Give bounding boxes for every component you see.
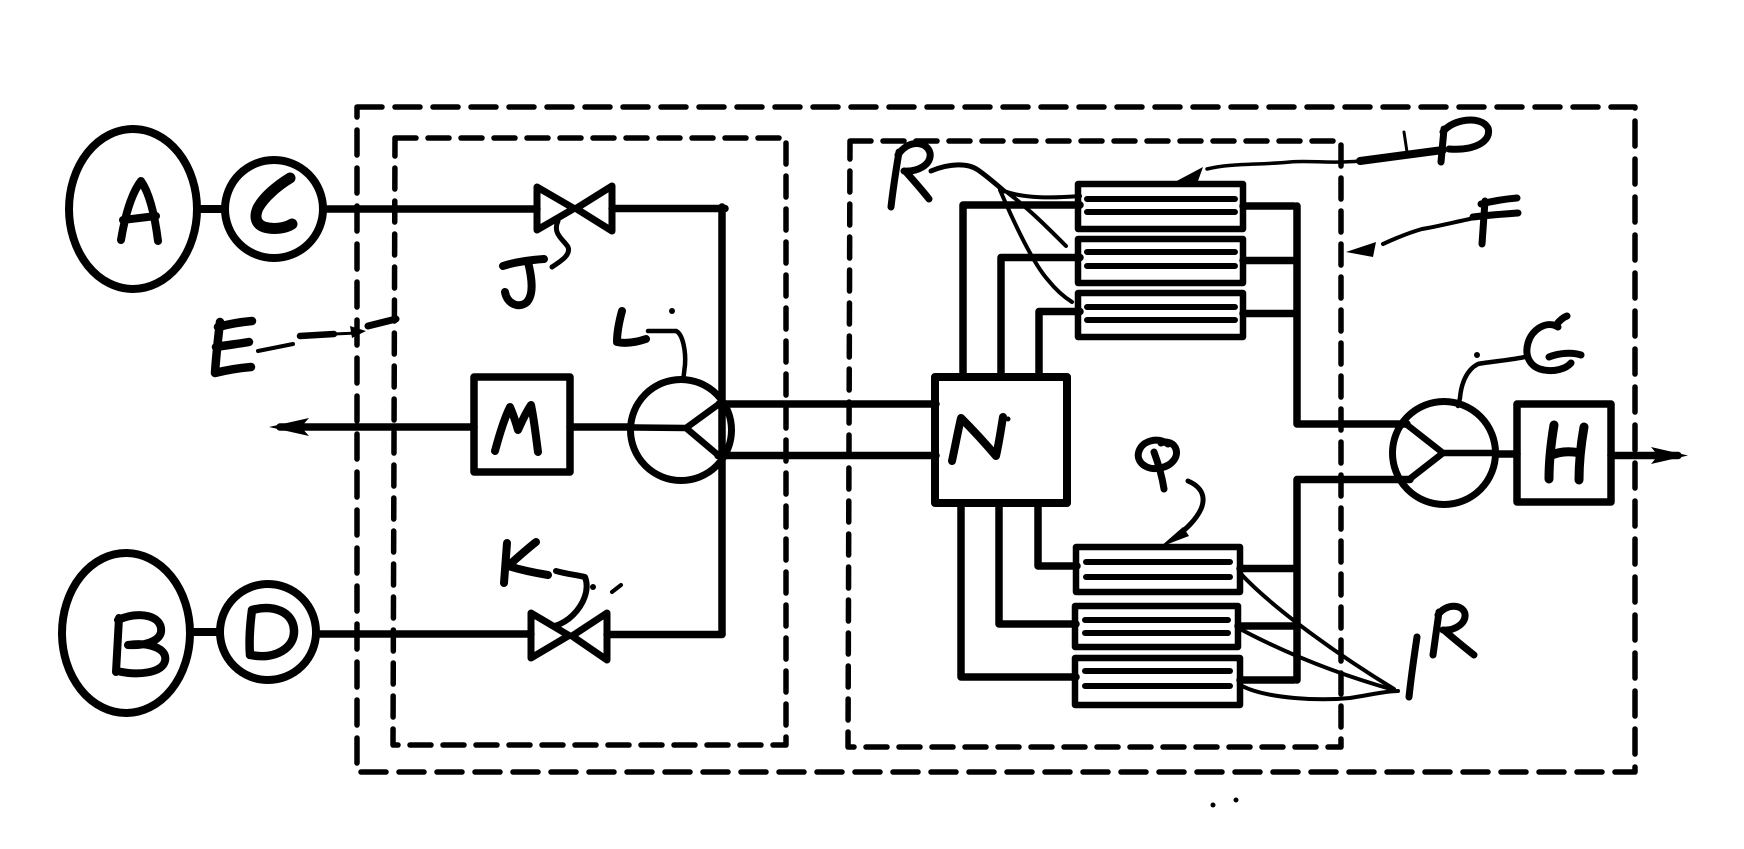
label B bbox=[116, 615, 165, 673]
label Q bbox=[1138, 440, 1176, 489]
label C bbox=[256, 178, 292, 228]
pump G vanes bbox=[1406, 424, 1497, 480]
leader L bbox=[648, 331, 685, 379]
stub Q3 right bbox=[1240, 676, 1294, 684]
label G bbox=[1527, 316, 1581, 371]
valve K bbox=[531, 613, 607, 660]
wire pump G to box H bbox=[1497, 450, 1517, 458]
label H bbox=[1549, 425, 1584, 480]
leader F bbox=[1383, 217, 1479, 244]
wire valve K to corner bbox=[607, 631, 722, 639]
valve J bbox=[537, 186, 612, 231]
pipe N-bot-3 bbox=[1038, 503, 1077, 566]
source A ellipse bbox=[69, 129, 197, 289]
leader R bottom curve 1 bbox=[1241, 574, 1394, 689]
outlet arrow right bbox=[1611, 452, 1678, 460]
meter D circle bbox=[220, 584, 316, 680]
stray dots bottom right bbox=[1211, 798, 1239, 808]
leader E arrowhead bbox=[350, 326, 366, 338]
pump L vanes bbox=[632, 404, 719, 455]
dashed box F bbox=[848, 141, 1341, 747]
heat exchanger P3 bbox=[1078, 293, 1243, 337]
pipe N-top-1 bbox=[963, 205, 1080, 377]
pump G circle bbox=[1393, 402, 1496, 505]
label L bbox=[617, 311, 646, 343]
wire valve J to corner bbox=[612, 205, 725, 213]
label R top bbox=[891, 144, 930, 208]
box N bbox=[935, 377, 1067, 503]
pipe N-bot-1 bbox=[961, 503, 1076, 677]
label K bbox=[504, 542, 548, 583]
pipe N-top-2 bbox=[1001, 258, 1080, 378]
wire C to valve J bbox=[323, 205, 537, 213]
leader R bottom curve 2 bbox=[1242, 630, 1394, 690]
leader Q bbox=[1176, 481, 1203, 537]
stub P1 right bbox=[1243, 202, 1294, 210]
stub Q2 right bbox=[1238, 622, 1294, 630]
leader G bbox=[1458, 357, 1525, 406]
dashed enclosure outer box bbox=[357, 107, 1635, 772]
heat exchanger Q1 bbox=[1076, 547, 1240, 592]
leader R top bbox=[931, 165, 1080, 302]
label M bbox=[495, 405, 538, 452]
stray dots near K bbox=[590, 584, 596, 590]
leader K bbox=[555, 571, 587, 626]
wire B to D bbox=[190, 628, 220, 636]
wire D to valve K bbox=[316, 630, 531, 638]
bus top right bbox=[1297, 206, 1407, 424]
wire L lower to N bbox=[718, 452, 936, 460]
label A bbox=[121, 181, 158, 241]
stub Q1 right bbox=[1240, 565, 1294, 573]
label J bbox=[503, 259, 544, 305]
leader J bbox=[552, 221, 569, 267]
pipe N-bot-2 bbox=[999, 503, 1076, 624]
label P bbox=[1441, 120, 1489, 162]
label N bbox=[952, 417, 1003, 461]
wire M to pump L bbox=[570, 423, 632, 431]
label R bottom bbox=[1433, 606, 1474, 655]
stub P2 right bbox=[1243, 257, 1294, 265]
pump L circle bbox=[631, 380, 732, 481]
heat exchanger Q3 bbox=[1075, 658, 1240, 705]
slash before R bottom bbox=[1409, 637, 1417, 697]
leader P bbox=[1207, 132, 1443, 169]
label F bbox=[1473, 198, 1518, 244]
stray dash near K bbox=[612, 585, 621, 592]
wire L upper to N bbox=[719, 400, 936, 408]
stub P3 right bbox=[1243, 310, 1294, 318]
box H bbox=[1517, 404, 1611, 502]
heat exchanger Q2 bbox=[1075, 606, 1238, 647]
leader E dash-dot bbox=[258, 319, 396, 351]
bus bottom right bbox=[1297, 480, 1410, 681]
wire vertical J-K riser bbox=[718, 207, 726, 634]
heat exchanger P2 bbox=[1078, 239, 1243, 283]
label E bbox=[215, 321, 252, 373]
pipe N-top-3 bbox=[1039, 312, 1080, 378]
box M bbox=[474, 377, 570, 472]
meter C circle bbox=[225, 160, 323, 258]
heat exchanger P1 bbox=[1078, 184, 1243, 229]
source B ellipse bbox=[62, 553, 190, 713]
label D bbox=[250, 608, 294, 656]
leader R bottom curve 3 bbox=[1242, 686, 1398, 699]
wire A to C bbox=[197, 205, 225, 213]
dashed box E bbox=[393, 138, 786, 745]
outlet arrow left bbox=[280, 423, 474, 431]
